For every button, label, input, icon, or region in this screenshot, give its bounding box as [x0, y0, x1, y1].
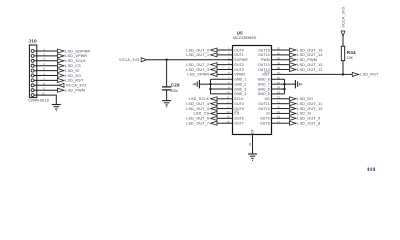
terminal LSD_OUT_15 at U5: [290, 48, 323, 52]
terminal LSD_SI at J10: [58, 69, 80, 73]
wire U5 right pin 22 stub: [272, 98, 277, 100]
wire U5 GND_8 to bus: [276, 88, 284, 90]
svg-text:OUT12: OUT12: [258, 68, 270, 72]
pin 2 J10: [31, 54, 34, 57]
svg-text:OUT5: OUT5: [234, 107, 244, 111]
svg-text:SO: SO: [265, 97, 270, 101]
terminal LSD_PWM at U5: [290, 58, 318, 62]
svg-text:LSD_OUT_9: LSD_OUT_9: [297, 117, 320, 121]
svg-text:LSD_RST: LSD_RST: [360, 73, 379, 77]
svg-text:LSD_OUT_14: LSD_OUT_14: [297, 53, 322, 57]
svg-text:OUT11: OUT11: [258, 102, 269, 106]
wire U5 to LSD_OUT_9: [276, 117, 289, 119]
terminal LSD_OUT_14 at U5: [290, 53, 323, 57]
svg-text:LSD_OUT_15: LSD_OUT_15: [297, 48, 322, 52]
svg-text:LSD_OUT_10: LSD_OUT_10: [297, 107, 322, 111]
svg-text:LSD_PWM: LSD_PWM: [65, 89, 85, 93]
wire LSD_OUT_0 to U5: [217, 49, 228, 51]
wire LSD_CS to U5: [217, 112, 228, 114]
svg-text:OUT9: OUT9: [260, 117, 270, 121]
svg-text:OUT1: OUT1: [234, 53, 244, 57]
svg-text:LSD_VPWR: LSD_VPWR: [187, 73, 209, 77]
wire U5 GND_10 to bus: [276, 78, 284, 80]
wire LSD_OUT_1 to U5: [217, 54, 228, 56]
wire U5 left pin 6 stub: [228, 73, 233, 75]
wire U5 to LSD_OUT_10: [276, 108, 289, 110]
svg-text:LSD_PWM: LSD_PWM: [297, 58, 317, 62]
svg-text:LSD_OUT_8: LSD_OUT_8: [297, 122, 320, 126]
wire LSD_OUT_4 to U5: [217, 103, 228, 105]
wire U5 to LSD_OUT_12: [276, 69, 289, 71]
terminal LSD_OUT_5 at U5: [186, 107, 217, 111]
wire U5 left pin 16 stub: [228, 122, 233, 124]
pin 8 J10: [31, 84, 34, 87]
wire VCCA_3V3 to R44: [342, 37, 344, 47]
wire U5 to LSD_OUT_15: [276, 49, 289, 51]
wire U5 left pin 2 stub: [228, 54, 233, 56]
pin 1 J10: [31, 50, 34, 53]
svg-text:LSD_OUT_1: LSD_OUT_1: [186, 53, 209, 57]
wire U5 right pin 27 stub: [272, 73, 277, 75]
wire U5 left pin 4 stub: [228, 64, 233, 66]
wire J10 pin 6: [34, 75, 57, 77]
wire U5 right pin 23 stub: [272, 93, 277, 95]
wire U5 left pin 1 stub: [228, 49, 233, 51]
svg-text:LSD_SO: LSD_SO: [297, 97, 313, 101]
svg-text:LSD_SO: LSD_SO: [65, 74, 81, 78]
wire U5 left pin 15 stub: [228, 117, 233, 119]
svg-text:OUT8: OUT8: [260, 122, 270, 126]
svg-text:LSD_OUT_4: LSD_OUT_4: [186, 102, 209, 106]
svg-text:LSD_SI: LSD_SI: [297, 112, 311, 116]
wire U5 left pin 13 stub: [228, 108, 233, 110]
terminal LSD_SO at U5: [290, 97, 314, 101]
svg-text:LSD_OUT_2: LSD_OUT_2: [186, 63, 209, 67]
svg-text:CONN-SIL10: CONN-SIL10: [28, 99, 49, 103]
svg-text:OUT14: OUT14: [258, 53, 270, 57]
terminal LSD_CS at J10: [58, 64, 82, 68]
wire right bus to ground: [285, 83, 296, 85]
wire R44 to RST net: [342, 61, 344, 75]
wire U5 to LSD_OUT_11: [276, 103, 289, 105]
ground below U5 EP: [248, 154, 257, 161]
terminal LSD_SOPWR at J10: [58, 49, 91, 53]
wire J10 pin 5: [34, 70, 57, 72]
wire U5 left pin 10 stub: [228, 93, 233, 95]
wire U5 right pin 30 stub: [272, 59, 277, 61]
terminal LSD_OUT_1 at U5: [186, 53, 217, 57]
terminal LSD_CS at U5: [194, 111, 217, 115]
svg-text:LSD_OUT_0: LSD_OUT_0: [186, 48, 209, 52]
svg-text:GND_8: GND_8: [258, 78, 270, 82]
svg-text:GND_6: GND_6: [258, 87, 270, 91]
wire J10 pin 7: [34, 79, 57, 81]
terminal LSD_OUT_3 at U5: [186, 68, 217, 72]
wire J10 pin 9: [34, 89, 57, 91]
pin 3 J10: [31, 59, 34, 62]
terminal LSD_SCLK at J10: [58, 59, 87, 63]
wire LSD_OUT_7 to U5: [217, 122, 228, 124]
decorative mark (ignore): [368, 168, 375, 171]
terminal LSD_OUT_7 at U5: [186, 121, 217, 125]
wire U5 left pin 3 stub: [228, 59, 233, 61]
wire U5 right pin 32 stub: [272, 49, 277, 51]
svg-text:LSD_OUT_12: LSD_OUT_12: [297, 68, 322, 72]
junction left bus row9: [209, 88, 211, 90]
svg-text:GND_5: GND_5: [258, 92, 270, 96]
terminal LSD_SO at J10: [58, 74, 82, 78]
power terminal VCCA_3V3 at J10: [59, 83, 87, 87]
svg-text:MCZ33996EK: MCZ33996EK: [233, 36, 257, 40]
wire U5 right pin 18 stub: [272, 117, 277, 119]
wire U5 left pin 12 stub: [228, 103, 233, 105]
wire U5 to LSD_SO: [276, 98, 289, 100]
svg-text:LSD_OUT_13: LSD_OUT_13: [297, 63, 322, 67]
ground below J10: [52, 105, 61, 112]
wire LSD_OUT_3 to U5: [217, 69, 228, 71]
wire U5 right pin 24 stub: [272, 88, 277, 90]
svg-text:LSD_VPWR: LSD_VPWR: [65, 54, 87, 58]
svg-text:LSD_OUT_7: LSD_OUT_7: [186, 122, 209, 126]
svg-text:PWM: PWM: [261, 58, 270, 62]
svg-text:OUT3: OUT3: [234, 68, 244, 72]
wire LSD_OUT_5 to U5: [217, 108, 228, 110]
junction VCCA_3V3 / C29: [165, 59, 167, 61]
junction RST / R44: [342, 73, 344, 75]
svg-text:LSD_OUT_3: LSD_OUT_3: [186, 68, 209, 72]
ground below C29: [162, 101, 171, 108]
terminal LSD_VPWR at J10: [58, 54, 88, 58]
svg-text:10: 10: [42, 92, 45, 96]
svg-text:VCCA_3V3: VCCA_3V3: [341, 7, 345, 28]
power terminal VCCA_3V3 left: [119, 58, 146, 62]
junction left bus row8: [209, 83, 211, 85]
capacitor C29: [162, 60, 171, 101]
svg-text:LSD_OUT_6: LSD_OUT_6: [186, 117, 209, 121]
terminal LSD_OUT_9 at U5: [290, 116, 321, 120]
ground left of U5: [193, 80, 200, 88]
wire U5 right pin 20 stub: [272, 108, 277, 110]
wire U5 right pin 29 stub: [272, 64, 277, 66]
terminal LSD_SCLK at U5: [189, 97, 217, 101]
terminal LSD_OUT_6 at U5: [186, 116, 217, 120]
connector J10: [29, 45, 36, 98]
wire U5 to LSD_OUT_8: [276, 122, 289, 124]
wire U5 left pin 11 stub: [228, 98, 233, 100]
svg-text:LSD_CS: LSD_CS: [194, 112, 210, 116]
wire U5 right pin 26 stub: [272, 78, 277, 80]
wire U5 GND_4 to bus: [211, 93, 228, 95]
svg-text:OUT6: OUT6: [234, 117, 244, 121]
wire left bus to ground: [199, 83, 210, 85]
pin 10 J10: [31, 94, 34, 97]
wire VCCA_3V3 to U5 SOPWR: [146, 59, 232, 61]
svg-text:LSD_CS: LSD_CS: [65, 64, 81, 68]
svg-text:VPWR: VPWR: [234, 73, 245, 77]
wire J10 pin 4: [34, 65, 57, 67]
svg-text:GND_7: GND_7: [258, 82, 270, 86]
svg-text:GND_2: GND_2: [234, 82, 246, 86]
svg-text:LSD_OUT_11: LSD_OUT_11: [297, 102, 322, 106]
svg-text:OUT7: OUT7: [234, 122, 244, 126]
junction right bus row8: [283, 83, 285, 85]
terminal LSD_RST at J10: [58, 78, 84, 82]
terminal LSD_OUT_2 at U5: [186, 63, 217, 67]
wire LSD_VPWR to U5: [217, 73, 228, 75]
svg-text:SOPWR: SOPWR: [234, 58, 248, 62]
wire U5 right pin 28 stub: [272, 69, 277, 71]
wire U5 RST to junction: [276, 73, 343, 75]
svg-text:OUT10: OUT10: [258, 107, 270, 111]
wire J10 pin 8: [34, 84, 59, 86]
resistor R44: [341, 46, 344, 61]
node left GND bus: [210, 79, 212, 94]
wire U5 GND_3 to bus: [211, 88, 228, 90]
wire U5 left pin 7 stub: [228, 78, 233, 80]
wire U5 left pin 9 stub: [228, 88, 233, 90]
junction right bus row9: [283, 88, 285, 90]
svg-text:OUT0: OUT0: [234, 48, 244, 52]
wire LSD_OUT_2 to U5: [217, 64, 228, 66]
svg-text:LSD_SI: LSD_SI: [65, 69, 79, 73]
svg-text:OUT15: OUT15: [258, 48, 270, 52]
svg-text:C29: C29: [171, 82, 180, 88]
pin 5 J10: [31, 69, 34, 72]
wire J10 pin 10 to ground: [34, 95, 56, 104]
wire J10 pin 1: [34, 50, 57, 52]
wire U5 GND_9 to bus: [276, 83, 284, 85]
svg-text:33: 33: [248, 143, 252, 146]
wire U5 right pin 25 stub: [272, 83, 277, 85]
svg-text:OUT13: OUT13: [258, 63, 270, 67]
svg-text:100n: 100n: [171, 89, 179, 93]
wire U5 to LSD_OUT_14: [276, 54, 289, 56]
pin 7 J10: [31, 79, 34, 82]
terminal LSD_OUT_0 at U5: [186, 48, 217, 52]
ground right of U5: [295, 80, 302, 88]
wire U5 left pin 8 stub: [228, 83, 233, 85]
svg-text:VCCA_3V3: VCCA_3V3: [119, 58, 140, 62]
wire LSD_SCLK to U5: [217, 98, 228, 100]
terminal LSD_RST: [352, 72, 379, 76]
svg-text:RST: RST: [263, 73, 270, 77]
node right GND bus: [284, 79, 286, 94]
wire U5 to LSD_SI: [276, 112, 289, 114]
svg-text:SI: SI: [266, 112, 270, 116]
wire U5 EP to ground: [252, 135, 254, 155]
svg-text:OUT2: OUT2: [234, 63, 244, 67]
pin 4 J10: [31, 64, 34, 67]
svg-text:10K: 10K: [347, 56, 354, 60]
svg-text:LSD_SOPWR: LSD_SOPWR: [65, 49, 90, 53]
svg-text:GND_4: GND_4: [234, 92, 246, 96]
svg-text:GND_1: GND_1: [234, 78, 246, 82]
pin 6 J10: [31, 74, 34, 77]
wire J10 pin 3: [34, 60, 57, 62]
terminal LSD_SI at U5: [290, 111, 312, 115]
wire LSD_OUT_6 to U5: [217, 117, 228, 119]
terminal LSD_OUT_4 at U5: [186, 102, 217, 106]
svg-text:CS: CS: [234, 112, 240, 116]
wire U5 to LSD_OUT_13: [276, 64, 289, 66]
wire U5 GND_1 to bus: [211, 78, 228, 80]
terminal LSD_OUT_12 at U5: [290, 68, 323, 72]
svg-text:R44: R44: [347, 50, 356, 55]
svg-text:LSD_SCLK: LSD_SCLK: [189, 97, 210, 101]
svg-text:SCLK: SCLK: [234, 97, 244, 101]
svg-text:VCCA_3V3: VCCA_3V3: [66, 84, 87, 88]
terminal LSD_PWM at J10: [58, 88, 86, 92]
terminal LSD_OUT_13 at U5: [290, 63, 323, 67]
wire U5 right pin 17 stub: [272, 122, 277, 124]
terminal LSD_VPWR at U5: [187, 72, 217, 76]
wire U5 GND_2 to bus: [211, 83, 228, 85]
wire U5 GND_7 to bus: [276, 93, 284, 95]
terminal LSD_OUT_10 at U5: [290, 107, 323, 111]
wire U5 left pin 5 stub: [228, 69, 233, 71]
terminal LSD_OUT_8 at U5: [290, 121, 321, 125]
wire U5 right pin 31 stub: [272, 54, 277, 56]
svg-text:GND_3: GND_3: [234, 87, 246, 91]
wire U5 right pin 19 stub: [272, 112, 277, 114]
svg-text:LSD_SCLK: LSD_SCLK: [65, 59, 86, 63]
wire J10 pin 2: [34, 55, 57, 57]
terminal LSD_OUT_11 at U5: [290, 102, 323, 106]
pin 9 J10: [31, 89, 34, 92]
op-amp U5 body: [233, 46, 272, 135]
svg-text:J10: J10: [28, 39, 37, 45]
power terminal VCCA_3V3 top right: [341, 7, 345, 37]
wire U5 to LSD_PWM: [276, 59, 289, 61]
svg-text:OUT4: OUT4: [234, 102, 244, 106]
wire junction to LSD_RST: [343, 73, 352, 75]
wire U5 left pin 14 stub: [228, 112, 233, 114]
wire U5 right pin 21 stub: [272, 103, 277, 105]
svg-text:U5: U5: [237, 30, 244, 35]
svg-text:LSD_RST: LSD_RST: [65, 79, 84, 83]
svg-text:LSD_OUT_5: LSD_OUT_5: [186, 107, 209, 111]
